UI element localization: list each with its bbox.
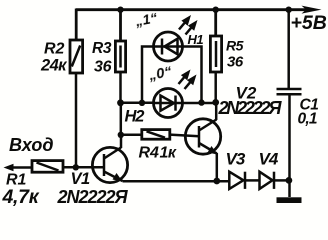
node: left bus junction xyxy=(139,100,145,106)
value 36 (R5) xyxy=(227,54,244,71)
diode V4 xyxy=(260,172,275,189)
svg-text:V1: V1 xyxy=(71,170,91,188)
wire R4 right to V2 base xyxy=(170,135,199,137)
label R3 xyxy=(92,40,112,57)
svg-text:V3: V3 xyxy=(226,150,246,169)
wire H1 left to left bus xyxy=(142,47,154,104)
wire R3 bottom to left LED node xyxy=(119,72,122,103)
node: R4 left junction xyxy=(118,132,124,138)
label V4 xyxy=(259,150,279,169)
wire V2 emitter down xyxy=(216,153,219,181)
svg-text:R3: R3 xyxy=(92,40,112,57)
wire C1 bottom down xyxy=(288,96,291,198)
svg-text:V4: V4 xyxy=(259,150,279,169)
wire V2 collector up xyxy=(215,102,218,120)
value 2N2222Я (V1) xyxy=(57,187,129,207)
node: R3/H2 junction xyxy=(117,99,124,106)
diode V3 xyxy=(229,172,245,189)
label H2 xyxy=(125,108,145,126)
label R2 xyxy=(44,41,65,58)
value 1к xyxy=(160,145,177,162)
value 4,7к xyxy=(2,186,40,208)
svg-text:+5В: +5В xyxy=(291,12,327,34)
wire left LED node horizontal xyxy=(121,102,154,105)
label "1" xyxy=(133,9,158,29)
svg-text:4,7к: 4,7к xyxy=(2,186,40,208)
label Вход xyxy=(9,135,53,155)
node: V2 emitter junction xyxy=(213,178,220,185)
resistor R5 xyxy=(210,36,221,72)
wire emitter bottom line xyxy=(123,180,230,183)
svg-text:„1“: „1“ xyxy=(133,9,158,29)
wire R4 left lead xyxy=(121,134,142,137)
svg-text:R4: R4 xyxy=(139,145,160,162)
svg-text:H1: H1 xyxy=(188,32,204,47)
input terminal arrow xyxy=(4,164,33,171)
wire right LED node horizontal xyxy=(183,102,216,105)
wire top rail to C1 xyxy=(287,10,290,88)
label +5В xyxy=(291,12,327,34)
ground xyxy=(277,197,302,203)
svg-text:24к: 24к xyxy=(40,57,68,75)
wire V3 to V4 xyxy=(245,179,260,182)
wire V1 base lead xyxy=(63,166,104,169)
wire H1 right to right bus xyxy=(183,47,202,103)
node: H1 right bus junction xyxy=(198,99,204,105)
node: R5/V2 collector junction xyxy=(212,99,219,106)
node: top rail junction to R3 xyxy=(117,7,123,13)
label R4 xyxy=(139,145,160,162)
svg-text:36: 36 xyxy=(94,59,112,76)
svg-text:1к: 1к xyxy=(160,145,177,162)
power arrow +5V xyxy=(302,6,322,14)
H1 light emission arrows xyxy=(179,15,198,35)
resistor R4 xyxy=(142,130,170,140)
svg-text:R2: R2 xyxy=(44,41,65,58)
resistor R1 xyxy=(32,161,63,173)
value 0,1 xyxy=(298,111,317,128)
svg-text:R5: R5 xyxy=(226,38,244,54)
svg-text:2N2222Я: 2N2222Я xyxy=(57,187,129,207)
resistor R3 xyxy=(115,41,125,72)
transistor V1 xyxy=(92,147,127,182)
label V3 xyxy=(226,150,246,169)
wire left node down to R4/V1 collector xyxy=(120,103,123,135)
wire top rail to R5 xyxy=(214,10,217,36)
svg-text:36: 36 xyxy=(227,54,244,71)
svg-text:„0“: „0“ xyxy=(147,64,174,84)
wire V1 collector up xyxy=(120,135,123,148)
LED H1 xyxy=(154,32,183,61)
transistor V2 xyxy=(185,119,220,155)
svg-text:H2: H2 xyxy=(125,108,145,126)
node: top rail junction to R5 xyxy=(213,7,219,13)
node: ground/C1 junction xyxy=(286,177,293,184)
wire R5 bottom to right LED node xyxy=(214,72,217,102)
value 24к xyxy=(40,57,68,75)
node: top rail junction to C1 xyxy=(286,7,292,13)
svg-text:Вход: Вход xyxy=(9,135,53,155)
svg-text:2N2222Я: 2N2222Я xyxy=(218,98,283,118)
resistor R2 xyxy=(70,40,83,73)
label V1 xyxy=(71,170,91,188)
label R1 xyxy=(6,172,27,189)
wire top rail to R3 xyxy=(119,10,122,41)
capacitor C1 xyxy=(277,89,302,94)
LED H2 xyxy=(154,89,183,118)
label C1 xyxy=(300,97,319,114)
value 36 (R3) xyxy=(94,59,112,76)
wire top rail to R2 xyxy=(75,9,78,41)
label V2 xyxy=(236,84,257,103)
node: R2/base junction xyxy=(73,164,79,170)
svg-text:0,1: 0,1 xyxy=(298,111,317,128)
H2 light emission arrows xyxy=(179,70,197,90)
wire +5V top rail xyxy=(76,6,322,14)
label R5 xyxy=(226,38,244,54)
label "0" xyxy=(147,64,174,84)
wire V4 to ground node xyxy=(274,179,289,182)
value 2N2222Я (V2) xyxy=(218,98,283,118)
wire R2 bottom to input line xyxy=(75,73,78,167)
label H1 xyxy=(188,32,204,47)
